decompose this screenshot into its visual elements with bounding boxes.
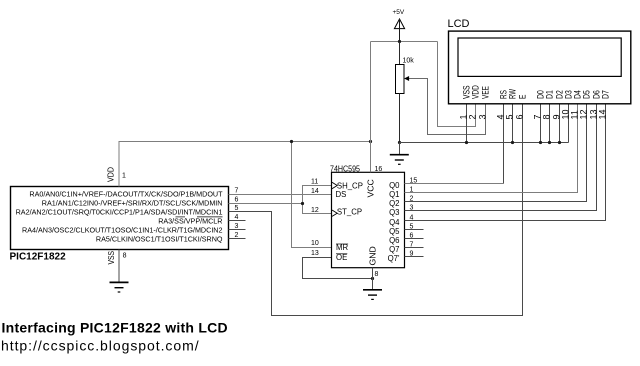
svg-text:VCC: VCC [366,179,376,197]
potentiometer wiper arrow to LCD VEE [404,76,485,135]
Q7 stub [405,247,424,249]
svg-text:http://ccspicc.blogspot.com/: http://ccspicc.blogspot.com/ [1,338,200,354]
svg-text:RA1/AN1/C12IN0-/VREF+/SRI/RX/D: RA1/AN1/C12IN0-/VREF+/SRI/RX/DT/SCL/SCK/… [42,199,223,208]
wire RA1 pin6 to clock node [229,203,303,205]
PIC pin VDD (1) label [107,167,126,182]
+5V power symbol [393,9,405,42]
wire LCD D1 to bus [549,104,551,143]
overline SS [176,216,186,218]
svg-text:Q4: Q4 [389,218,400,227]
svg-text:3: 3 [235,223,239,230]
svg-text:3: 3 [478,114,488,119]
svg-text:7: 7 [235,188,239,195]
svg-text:14: 14 [311,188,319,195]
wire LCD RW to bus [512,104,514,143]
74HC595 GND label pin8 [368,246,379,278]
svg-text:D1: D1 [544,90,554,99]
ground bus wire [400,142,569,144]
wire Q3 to LCD D6 [405,104,597,211]
74HC595 right pin names Q0-Q7' [388,181,401,263]
node rail/VCC junction [369,140,372,143]
PIC pin2 stub [229,238,246,240]
svg-text:+5V: +5V [393,9,405,16]
Q7' stub [405,256,424,258]
wire SH_CP/ST_CP vertical [303,186,332,214]
svg-text:VEE: VEE [480,86,490,99]
svg-text:8: 8 [375,271,379,278]
svg-text:6: 6 [235,197,239,204]
wire RA0 pin7 to DS [229,194,332,196]
wire LCD D0 to bus [540,104,542,143]
svg-text:8: 8 [123,253,127,260]
svg-text:10: 10 [311,240,319,247]
PIC pin VSS (8) label [107,251,127,265]
LCD LCD1 body [448,18,631,104]
potentiometer RV1 10k [396,42,415,143]
svg-text:Q6: Q6 [389,236,399,245]
svg-text:RA4/AN3/OSC2/CLKOUT/T1OSO/C1IN: RA4/AN3/OSC2/CLKOUT/T1OSO/C1IN1-/CLKR/T1… [22,226,223,235]
svg-text:Q3: Q3 [389,208,399,217]
wire +5V top rail [371,41,438,43]
svg-text:Q5: Q5 [389,227,400,236]
wire PIC VSS down to ground [118,250,120,282]
wire LCD D2 to bus [559,104,561,143]
node D0 junction [539,141,542,144]
74HC595 U2 body [330,164,405,267]
74HC595 clock pin arrows [332,182,337,216]
svg-text:Q7: Q7 [389,245,399,254]
wire Q0 to LCD RS [405,183,504,185]
wire OE to GND [303,258,373,279]
svg-text:12: 12 [579,109,589,119]
svg-text:2: 2 [235,232,239,239]
svg-text:12: 12 [311,207,319,214]
svg-text:6: 6 [515,114,525,119]
svg-text:RW: RW [507,89,517,99]
node D1 junction [548,141,551,144]
Q5 stub [405,229,424,231]
svg-text:VDD: VDD [470,85,480,99]
svg-text:8: 8 [542,114,552,119]
node clock junction [301,202,304,205]
svg-text:4: 4 [235,214,239,221]
PIC pin4 stub [229,220,246,222]
svg-text:RA2/AN2/C1OUT/SRQ/T0CKI/CCP1/P: RA2/AN2/C1OUT/SRQ/T0CKI/CCP1/P1A/SDA/SDI… [16,208,223,217]
74HC595 VCC label pin16 [366,166,383,198]
svg-text:PIC12F1822: PIC12F1822 [10,251,67,262]
svg-text:Q7': Q7' [388,254,400,263]
wire VCC pin16 to +5V [370,42,372,173]
svg-text:D5: D5 [581,90,591,99]
svg-text:DS: DS [336,190,347,199]
wire GND pin8 down [372,268,374,290]
wire RA2 pin5 to LCD E (bottom loop) [229,104,523,316]
svg-text:MR: MR [336,243,348,252]
svg-text:5: 5 [235,205,239,212]
74HC595 right pin numbers [410,178,418,258]
LCD pin numbers 1-14 [459,109,608,119]
svg-text:74HC595: 74HC595 [330,164,360,173]
svg-text:D7: D7 [600,90,610,99]
node RW junction [511,141,514,144]
node rail/MR junction [290,140,293,143]
PIC12F1822 U1 body [10,187,229,263]
wire MR to +5V rail [292,142,332,248]
node OE/GND junction [371,277,374,280]
overline MCLR [197,216,223,218]
74HC595 left pin names [336,181,363,261]
wire LCD VSS to bus [466,104,468,143]
LCD pin name labels [461,85,610,99]
svg-text:E: E [517,95,527,99]
svg-text:VSS: VSS [107,251,116,265]
ground GND3 stub under bus [399,143,401,155]
PIC right pin numbers [235,188,239,239]
Q6 stub [405,238,424,240]
PIC pin name labels [16,190,223,244]
overline MR [336,243,348,245]
wire Q1 to LCD D4 [405,104,578,193]
svg-text:16: 16 [375,166,383,173]
74HC595 left pin numbers [311,179,319,258]
svg-text:VDD: VDD [107,167,116,182]
PIC pin3 stub [229,229,246,231]
node D2 junction [558,141,561,144]
svg-text:LCD: LCD [448,18,470,30]
svg-text:GND: GND [368,246,378,265]
wire Q4 to LCD D7 [405,104,606,221]
svg-text:RA3/SS/VPP/MCLR: RA3/SS/VPP/MCLR [158,217,222,226]
svg-text:5: 5 [505,114,515,119]
svg-text:Q2: Q2 [389,199,399,208]
svg-text:2: 2 [468,114,478,119]
svg-text:Q0: Q0 [389,181,400,190]
svg-text:RA5/CLKIN/OSC1/T1OSI/T1CKI/SRN: RA5/CLKIN/OSC1/T1OSI/T1CKI/SRNQ [96,235,223,244]
node +5V junction [398,40,401,43]
svg-text:ST_CP: ST_CP [337,208,362,217]
wire +5V to LCD VDD [438,42,476,127]
svg-text:RA0/AN0/C1IN+/VREF-/DACOUT/TX/: RA0/AN0/C1IN+/VREF-/DACOUT/TX/CK/SDO/P1B… [29,190,223,199]
svg-text:14: 14 [598,109,608,119]
overline OE [336,253,347,255]
svg-text:1: 1 [122,173,126,180]
wire PIC VDD up to +5V rail [119,142,371,187]
ground GND2 under 74HC595 [363,290,382,300]
svg-text:10k: 10k [403,58,415,65]
wire Q2 to LCD D5 [405,104,587,202]
svg-text:11: 11 [311,179,318,186]
node VSS junction [465,141,468,144]
wire LCD D3 to bus end [568,104,570,143]
ground GND1 under PIC [110,282,129,292]
svg-text:Interfacing PIC12F1822 with LC: Interfacing PIC12F1822 with LCD [2,320,228,336]
svg-text:13: 13 [311,250,319,257]
node pot bottom / ground bus [398,141,401,144]
svg-text:Q1: Q1 [389,190,399,199]
